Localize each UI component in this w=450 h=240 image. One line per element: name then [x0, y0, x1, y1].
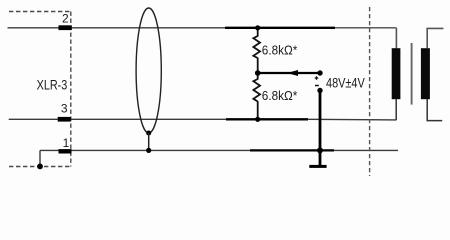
svg-text:XLR-3: XLR-3: [37, 77, 68, 92]
svg-text:1: 1: [63, 136, 70, 150]
svg-text:6.8kΩ*: 6.8kΩ*: [262, 88, 298, 103]
svg-text:6.8kΩ*: 6.8kΩ*: [262, 42, 298, 57]
svg-text:48V±4V: 48V±4V: [326, 75, 365, 90]
svg-text:2: 2: [62, 12, 69, 26]
svg-text:3: 3: [61, 102, 68, 116]
